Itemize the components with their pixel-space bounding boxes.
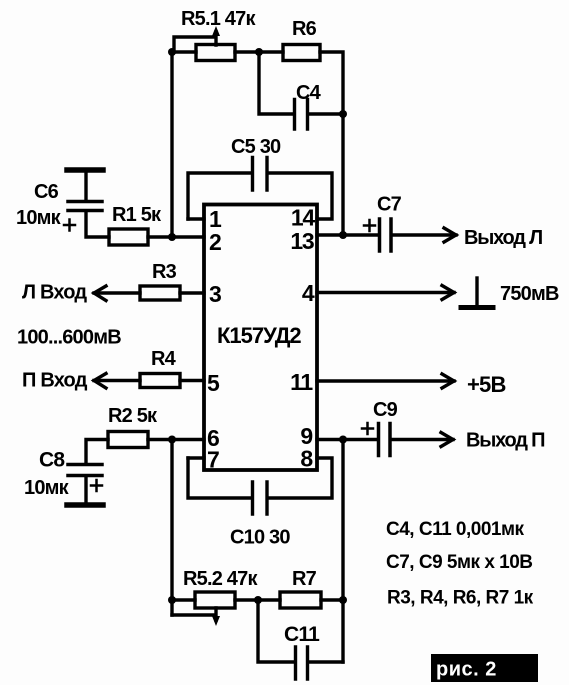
op-amp U1 K157UD2 package box — [204, 205, 317, 471]
svg-text:100...600мВ: 100...600мВ — [17, 327, 121, 349]
svg-text:R7: R7 — [292, 568, 317, 590]
resistor R5.1 body — [196, 45, 235, 61]
svg-text:14: 14 — [291, 205, 316, 231]
wire C6 top stub — [84, 170, 87, 200]
wire pin1 stub — [188, 217, 204, 220]
svg-text:R1 5к: R1 5к — [112, 204, 162, 226]
resistor R3 body — [140, 286, 180, 300]
wire L input to R3 — [94, 291, 140, 294]
wire R4 to pin 5 — [180, 379, 204, 382]
svg-text:750мВ: 750мВ — [500, 283, 559, 305]
C9 plus sign — [362, 423, 373, 434]
resistor R5.2 body — [195, 592, 235, 608]
svg-text:C6: C6 — [34, 181, 59, 203]
capacitor C6 plates — [68, 202, 102, 211]
wire C11 loop right — [309, 660, 343, 663]
resistor R5.1 wiper arrowhead — [212, 26, 220, 36]
resistor R4 body — [140, 374, 180, 388]
wire R3 to pin 3 — [180, 291, 204, 294]
svg-text:C7, C9 5мк x 10В: C7, C9 5мк x 10В — [386, 552, 533, 573]
arrow P input — [94, 374, 106, 389]
node pin9 junction dot — [339, 436, 347, 444]
svg-text:11: 11 — [290, 369, 313, 395]
node C4-right junction dot — [339, 110, 347, 118]
svg-text:C7: C7 — [377, 194, 402, 216]
svg-text:Выход Л: Выход Л — [464, 227, 542, 249]
svg-text:7: 7 — [207, 447, 219, 473]
resistor R7 body — [280, 592, 321, 608]
C6 plus sign — [64, 220, 75, 231]
svg-text:R5.2 47к: R5.2 47к — [183, 568, 258, 590]
wire P input to R4 — [94, 379, 140, 382]
wire C11 loop left — [258, 600, 294, 662]
capacitor C10 plates — [253, 482, 268, 514]
wire C10 loop left and bottom — [188, 458, 251, 498]
svg-text:R5.1 47к: R5.1 47к — [181, 8, 256, 30]
svg-text:+5В: +5В — [467, 372, 506, 397]
svg-text:К157УД2: К157УД2 — [217, 323, 301, 348]
wire left feedback vertical bottom — [170, 440, 173, 616]
capacitor C11 plates — [296, 647, 308, 679]
wire pin7 stub — [188, 456, 204, 459]
capacitor C8 plates — [68, 465, 102, 476]
svg-text:4: 4 — [302, 280, 315, 306]
node R5.2-R7 junction dot — [254, 596, 262, 604]
wire pin11 — [317, 379, 454, 382]
node B junction dot — [255, 48, 263, 56]
node R5.2 left junction dot — [168, 596, 176, 604]
svg-text:3: 3 — [209, 281, 221, 307]
svg-text:Л Вход: Л Вход — [22, 282, 87, 304]
capacitor C4 plates — [295, 100, 308, 130]
capacitor C6 top terminal bar — [67, 167, 103, 173]
wire R5.1 to node B — [235, 50, 283, 53]
arrow output P — [441, 433, 453, 447]
svg-text:8: 8 — [300, 446, 313, 472]
wire pin4 — [317, 291, 454, 294]
svg-text:Выход П: Выход П — [466, 430, 545, 452]
wire left feedback vertical top — [170, 52, 173, 237]
resistor R2 body — [108, 432, 148, 448]
resistor R5.2 wiper arrowhead — [212, 616, 220, 626]
wire C4 right — [309, 112, 343, 115]
resistor R5.1 wiper arm — [174, 32, 216, 52]
svg-text:C4, C11 0,001мк: C4, C11 0,001мк — [386, 519, 525, 540]
C8 plus sign — [91, 480, 102, 491]
svg-text:R3, R4, R6, R7 1к: R3, R4, R6, R7 1к — [387, 588, 534, 609]
wire to R5.2 — [172, 598, 195, 601]
node pin2 junction dot — [168, 233, 176, 241]
capacitor C9 plates — [379, 424, 391, 456]
node R7 right junction dot — [339, 596, 347, 604]
node pin6 junction dot — [168, 436, 176, 444]
C7 plus sign — [364, 220, 375, 231]
svg-text:рис. 2: рис. 2 — [436, 659, 497, 681]
svg-text:C8: C8 — [39, 449, 65, 472]
wire R6 right to vertical — [320, 52, 343, 235]
wire right vertical bottom — [341, 440, 344, 663]
svg-text:R2 5к: R2 5к — [108, 405, 158, 427]
svg-text:R3: R3 — [152, 261, 177, 283]
arrow output L — [444, 228, 456, 242]
wire C7 to output L arrow — [392, 233, 456, 236]
svg-text:C9: C9 — [373, 399, 398, 421]
resistor R6 body — [283, 45, 320, 61]
node A : R5.1 left node dot — [168, 48, 176, 56]
svg-text:5: 5 — [207, 370, 220, 396]
wire C8 bottom stub — [84, 476, 87, 503]
wire R2 to pin 6 — [148, 438, 204, 441]
resistor R1 body — [109, 229, 148, 245]
common terminal symbol 750mV — [475, 278, 478, 306]
wire pin13 to C7 — [317, 233, 378, 236]
wire R7 right — [321, 598, 343, 601]
wire R5.1 left — [172, 50, 196, 53]
svg-text:П Вход: П Вход — [22, 370, 88, 392]
arrow pin4 — [442, 286, 454, 300]
wire R1 to pin 2 — [148, 235, 204, 238]
wire R5.2 to R7 — [235, 598, 280, 601]
node pin13 junction dot — [339, 231, 347, 239]
wire C6 bottom stub to R1 — [86, 212, 109, 237]
svg-text:C10 30: C10 30 — [230, 527, 290, 549]
resistor R5.2 wiper arm — [172, 608, 216, 620]
svg-text:C11: C11 — [284, 623, 320, 646]
svg-text:2: 2 — [209, 229, 221, 255]
wire C4 left branch — [259, 52, 294, 114]
arrow pin11 — [442, 374, 454, 388]
wire C5 loop top right and right side — [268, 173, 332, 219]
wire C5 loop left and top — [188, 173, 251, 219]
wire pin9 to C9 — [317, 438, 377, 441]
svg-text:10мк: 10мк — [24, 477, 70, 499]
wire C10 loop bottom right and right side — [268, 458, 332, 498]
svg-text:C4: C4 — [296, 82, 322, 104]
svg-text:13: 13 — [290, 228, 314, 254]
wire R2 left to C8 — [86, 440, 108, 465]
svg-text:C5 30: C5 30 — [231, 136, 281, 158]
arrow L input — [94, 286, 106, 301]
svg-text:R6: R6 — [292, 18, 317, 40]
svg-text:10мк: 10мк — [16, 207, 62, 229]
figure caption box — [431, 654, 538, 682]
capacitor C5 plates — [253, 158, 268, 191]
capacitor C8 bottom terminal bar — [67, 502, 103, 508]
capacitor C7 plates — [380, 219, 392, 251]
svg-text:R4: R4 — [151, 348, 177, 370]
wire C9 to output P arrow — [391, 438, 453, 441]
